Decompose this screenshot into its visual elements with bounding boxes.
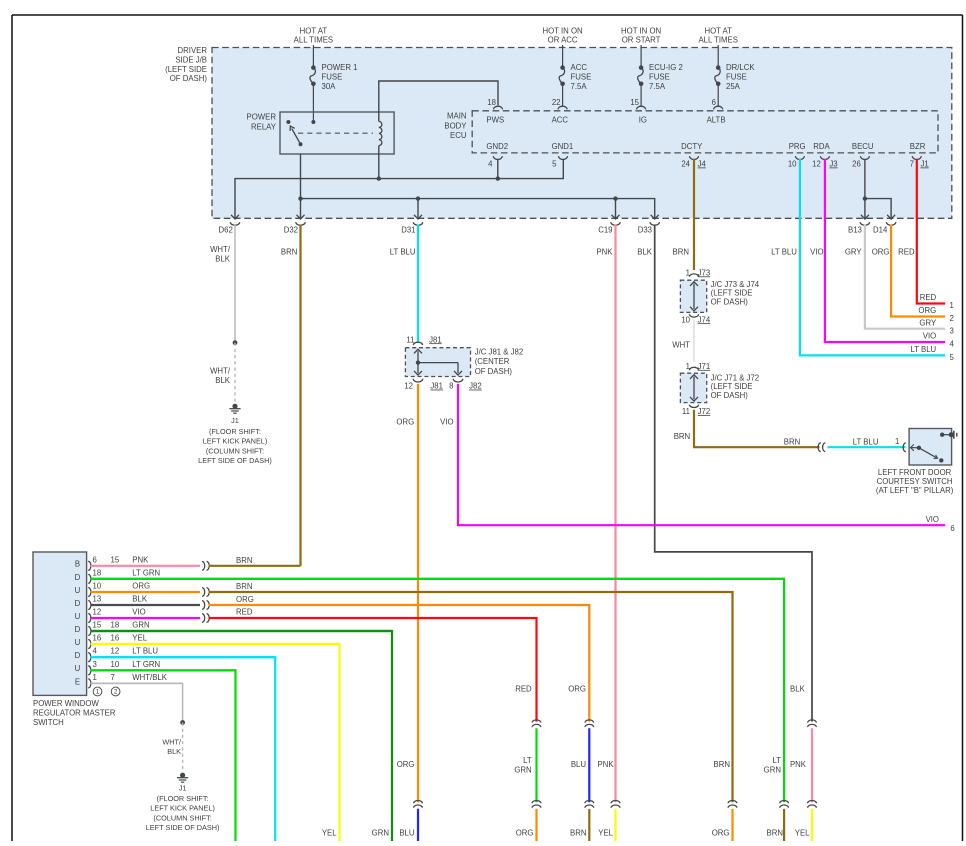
svg-text:LEFT FRONT DOOR: LEFT FRONT DOOR <box>878 468 952 477</box>
svg-text:LT GRN: LT GRN <box>132 568 160 577</box>
svg-text:J4: J4 <box>698 159 707 168</box>
svg-text:POWER: POWER <box>247 113 277 122</box>
wire from HOT IN ON OR START to ECU-IG 2 fuse <box>640 45 642 68</box>
master switch pin 3 wire LT GRN <box>88 660 236 675</box>
splice dot on WHT/BLK wire <box>233 340 238 345</box>
terminal 3 <box>950 326 954 335</box>
courtesy switch pin 1 socket arc <box>903 443 906 452</box>
svg-text:BRN: BRN <box>673 247 689 256</box>
svg-text:J74: J74 <box>698 315 711 324</box>
svg-text:22: 22 <box>552 98 561 107</box>
ECU pin 5 GND1 <box>552 142 574 169</box>
svg-text:J72: J72 <box>698 407 711 416</box>
svg-text:OF DASH): OF DASH) <box>475 367 513 376</box>
svg-text:7.5A: 7.5A <box>571 82 588 91</box>
svg-text:ORG: ORG <box>712 829 730 838</box>
junction connector pin 8 J82 <box>449 379 482 391</box>
connector B13 <box>848 215 870 235</box>
svg-text:BLK: BLK <box>167 747 181 756</box>
wire YEL below PNK connector <box>598 809 615 841</box>
svg-text:30A: 30A <box>322 82 337 91</box>
wire from HOT AT ALL TIMES to DR/LCK fuse <box>717 45 719 68</box>
svg-text:U: U <box>75 638 81 647</box>
svg-text:15: 15 <box>111 555 120 564</box>
circled terminal 2 of master switch <box>111 687 120 696</box>
svg-text:U: U <box>75 586 81 595</box>
inline connector VIO to RED (row 5) <box>202 614 209 623</box>
wire ORG from J81 pin 12 down <box>396 384 418 802</box>
svg-text:2: 2 <box>950 314 954 323</box>
courtesy switch case ground contact <box>940 431 957 439</box>
svg-text:LT BLU: LT BLU <box>390 247 416 256</box>
terminal 1 <box>950 301 954 310</box>
svg-text:D62: D62 <box>218 225 232 234</box>
svg-text:DRIVER: DRIVER <box>178 46 208 55</box>
svg-text:D33: D33 <box>638 225 652 234</box>
wire PNK segment below BLK <box>790 728 812 802</box>
svg-text:16: 16 <box>111 633 120 642</box>
junction block: DRIVER SIDE J/B (dashed box) <box>212 48 952 219</box>
svg-text:6: 6 <box>950 524 954 533</box>
wire BLK from D33 down and right <box>637 225 812 722</box>
svg-text:BRN: BRN <box>236 582 252 591</box>
svg-text:1: 1 <box>950 301 954 310</box>
svg-text:RELAY: RELAY <box>251 122 277 131</box>
svg-text:LT BLU: LT BLU <box>910 345 936 354</box>
svg-text:VIO: VIO <box>132 607 145 616</box>
svg-text:PNK: PNK <box>598 760 615 769</box>
wire relay coil to ECU pin 18 PWS <box>379 81 498 121</box>
svg-text:BODY: BODY <box>444 121 467 130</box>
wire LT BLU to courtesy switch pin 1 <box>828 437 906 447</box>
wire BECU split to D14 <box>865 199 891 219</box>
svg-text:U: U <box>75 612 81 621</box>
ground bus wire (D62/GND2/GND1) <box>235 159 563 218</box>
junction block J/C J81 & J82 (dashed box) <box>405 347 523 376</box>
svg-text:J1: J1 <box>921 159 929 168</box>
svg-text:HOT AT: HOT AT <box>704 26 732 35</box>
courtesy switch arm and contacts <box>911 444 944 462</box>
svg-text:J81: J81 <box>430 382 443 391</box>
svg-text:J71: J71 <box>698 362 711 371</box>
supply label HOT IN ON OR ACC <box>543 26 583 44</box>
svg-text:WHT/: WHT/ <box>210 245 231 254</box>
power feed bus wire (D32/D31/C19/D33) <box>298 196 654 218</box>
svg-text:J73: J73 <box>698 268 711 277</box>
svg-text:SIDE J/B: SIDE J/B <box>175 55 207 64</box>
ECU pin 24 DCTY junction J4 <box>681 142 706 169</box>
svg-text:C19: C19 <box>598 225 612 234</box>
svg-text:18: 18 <box>93 568 102 577</box>
svg-text:DCTY: DCTY <box>681 142 703 151</box>
svg-text:VIO: VIO <box>810 247 823 256</box>
master switch pin 12 wire VIO <box>88 607 200 622</box>
svg-text:LEFT KICK PANEL): LEFT KICK PANEL) <box>150 804 215 813</box>
svg-text:16: 16 <box>93 633 102 642</box>
svg-text:IG: IG <box>639 115 647 124</box>
inline connector LT GRN to BRN (x=784.1) <box>780 801 789 808</box>
terminal 6 <box>950 524 954 533</box>
svg-text:6: 6 <box>712 98 716 107</box>
wire from ECU-IG 2 fuse to ECU pin 15 <box>640 84 642 107</box>
terminal 2 <box>950 314 954 323</box>
svg-text:GND1: GND1 <box>552 142 574 151</box>
svg-text:15: 15 <box>93 620 102 629</box>
svg-text:E: E <box>75 677 80 686</box>
svg-text:LEFT SIDE OF DASH): LEFT SIDE OF DASH) <box>198 456 272 465</box>
svg-text:OF DASH): OF DASH) <box>711 297 749 306</box>
circled terminal 1 of master switch <box>93 687 102 696</box>
wire VIO from J82 pin 8 to terminal 6 <box>440 384 945 525</box>
svg-text:GRN: GRN <box>372 829 389 838</box>
svg-text:18: 18 <box>111 620 120 629</box>
ground J1 (master switch) <box>146 773 220 833</box>
svg-text:(LEFT SIDE: (LEFT SIDE <box>165 65 207 74</box>
svg-text:LT GRN: LT GRN <box>132 660 160 669</box>
wire ORG to bottom (x=732.5) <box>712 809 733 841</box>
svg-text:12: 12 <box>812 159 821 168</box>
wire LT GRN segment (x=536.5) <box>514 728 536 802</box>
svg-text:1: 1 <box>93 673 97 682</box>
svg-text:D: D <box>75 651 81 660</box>
svg-text:BRN: BRN <box>714 760 730 769</box>
junction connector pin 11 J81 <box>406 335 441 345</box>
svg-text:ECU: ECU <box>450 131 467 140</box>
fuse ACC FUSE 7.5A <box>559 63 591 91</box>
svg-text:RED: RED <box>515 684 532 693</box>
svg-text:10: 10 <box>788 159 797 168</box>
relay movable arm with arrow <box>290 126 302 146</box>
svg-text:J81: J81 <box>429 335 442 344</box>
inline connector ORG to BLU (x=589.3) <box>585 720 594 727</box>
master switch pin 1 wire WHT/BLK <box>88 673 182 688</box>
connector D32 <box>284 215 306 235</box>
svg-text:FUSE: FUSE <box>571 72 592 81</box>
svg-text:BRN: BRN <box>236 556 252 565</box>
svg-text:WHT/BLK: WHT/BLK <box>132 673 167 682</box>
relay fixed contact (left) <box>286 120 290 124</box>
svg-text:J/C J73 & J74: J/C J73 & J74 <box>711 280 760 289</box>
wire BRN row 3 down at x=732.5 <box>209 582 733 802</box>
svg-text:PNK: PNK <box>596 247 613 256</box>
relay fixed contact fed by POWER 1 fuse <box>311 120 315 124</box>
svg-text:25A: 25A <box>726 82 741 91</box>
wire BECU pin 26 to B13/D14 split <box>863 159 867 218</box>
wire from DR/LCK fuse to ECU pin 6 <box>717 84 719 107</box>
wire RED row 5 down at x=536.5 <box>209 607 537 721</box>
svg-text:ORG: ORG <box>872 247 890 256</box>
inline connector BLK to ORG (row 4) <box>202 601 209 610</box>
wire BRN from D32 to master switch <box>281 225 301 566</box>
ECU pin 15 IG <box>630 98 647 124</box>
inline connector LT GRN to ORG (x=536.5) <box>532 801 541 808</box>
wire from POWER 1 fuse to relay contact <box>312 84 314 122</box>
svg-text:HOT IN ON: HOT IN ON <box>543 26 583 35</box>
svg-text:2: 2 <box>114 689 118 696</box>
master switch pin 18 wire LT GRN <box>88 568 784 583</box>
svg-text:D: D <box>75 599 81 608</box>
svg-text:VIO: VIO <box>926 515 939 524</box>
svg-text:BECU: BECU <box>852 142 874 151</box>
svg-text:POWER 1: POWER 1 <box>322 63 358 72</box>
svg-text:OR START: OR START <box>622 35 661 44</box>
svg-text:GRN: GRN <box>132 620 149 629</box>
svg-text:(FLOOR SHIFT:: (FLOOR SHIFT: <box>209 427 261 436</box>
svg-text:11: 11 <box>682 407 690 416</box>
master switch pin 4 wire LT BLU <box>88 647 275 662</box>
svg-text:12: 12 <box>111 647 120 656</box>
wire from ACC fuse to ECU pin 22 <box>562 84 564 107</box>
ECU pin 12 RDA junction J3 <box>812 142 838 169</box>
svg-text:BRN: BRN <box>784 438 800 447</box>
switch S1: LEFT FRONT DOOR COURTESY SWITCH (box) <box>909 429 952 466</box>
svg-text:J1: J1 <box>179 783 187 792</box>
label MAIN BODY ECU <box>444 111 467 140</box>
svg-text:LT BLU: LT BLU <box>771 247 797 256</box>
svg-text:J82: J82 <box>469 382 482 391</box>
connector C19 <box>598 215 620 235</box>
svg-text:10: 10 <box>681 315 690 324</box>
svg-text:YEL: YEL <box>322 829 337 838</box>
svg-text:ORG: ORG <box>236 595 254 604</box>
master switch pin 6 wire PNK <box>88 555 200 570</box>
wire from HOT IN ON OR ACC to ACC fuse <box>562 45 564 68</box>
junction dot coil-ground bus <box>377 176 381 180</box>
svg-text:J3: J3 <box>829 159 837 168</box>
svg-text:PNK: PNK <box>790 760 807 769</box>
junction connector pin 1 J71 <box>686 362 711 371</box>
svg-text:FUSE: FUSE <box>322 72 343 81</box>
svg-text:7: 7 <box>111 673 115 682</box>
svg-text:12: 12 <box>93 607 102 616</box>
junction block J/C J73 & J74 (dashed box) <box>680 280 759 313</box>
svg-text:OF DASH): OF DASH) <box>170 74 208 83</box>
relay K1: POWER RELAY (box) <box>247 112 395 154</box>
svg-text:SWITCH: SWITCH <box>33 718 64 727</box>
label DRIVER SIDE J/B <box>165 46 207 83</box>
svg-text:RED: RED <box>920 293 937 302</box>
svg-text:ORG: ORG <box>568 684 586 693</box>
wire PNK from C19 down <box>596 225 615 803</box>
splice dot on WHT/BLK (master switch) <box>180 720 185 725</box>
inline connector BRN to LT BLU <box>818 443 825 452</box>
svg-text:BLK: BLK <box>637 247 653 256</box>
svg-text:LT: LT <box>523 756 532 765</box>
svg-text:15: 15 <box>630 98 639 107</box>
ground J1 (floor shift) <box>198 404 272 466</box>
svg-text:GRN: GRN <box>764 765 781 774</box>
svg-text:10: 10 <box>93 581 102 590</box>
wire BRN row 1 to D32 wire <box>209 556 301 566</box>
wire ORG to bottom (x=536.5) <box>516 809 537 841</box>
ECU pin 26 BECU <box>852 142 874 169</box>
svg-text:COURTESY SWITCH: COURTESY SWITCH <box>877 477 953 486</box>
svg-text:8: 8 <box>449 382 453 391</box>
connector D62 <box>218 215 239 235</box>
svg-text:4: 4 <box>93 647 98 656</box>
master switch pin 15 wire GRN <box>88 620 390 635</box>
svg-text:B13: B13 <box>848 225 862 234</box>
wire ORG from D14 to terminal 2 <box>872 225 945 317</box>
svg-text:OR ACC: OR ACC <box>548 35 578 44</box>
svg-text:B: B <box>75 560 80 569</box>
svg-text:WHT: WHT <box>672 340 690 349</box>
terminal 5 <box>950 353 955 362</box>
wire from HOT AT ALL TIMES to POWER 1 fuse <box>312 45 314 68</box>
svg-text:BRN: BRN <box>570 829 586 838</box>
relay dashed actuation link <box>298 132 373 134</box>
connector D33 <box>638 215 660 235</box>
svg-text:RED: RED <box>236 607 253 616</box>
svg-text:BLU: BLU <box>399 829 415 838</box>
wire BRN from ECU pin 24 DCTY <box>673 159 694 270</box>
svg-text:(LEFT SIDE: (LEFT SIDE <box>711 382 753 391</box>
svg-text:VIO: VIO <box>440 417 453 426</box>
wire VIO from RDA pin 12 to terminal 4 <box>810 159 945 342</box>
svg-text:J/C J81 & J82: J/C J81 & J82 <box>475 347 524 356</box>
svg-text:7.5A: 7.5A <box>649 82 666 91</box>
svg-text:(COLUMN SHIFT:: (COLUMN SHIFT: <box>153 813 211 822</box>
inline connector PNK to BRN (row 1) <box>202 561 209 570</box>
wire ORG row 4 down at x=589.3 <box>209 595 590 722</box>
junction connector pin 11 J72 <box>682 405 710 416</box>
svg-text:D14: D14 <box>873 225 888 234</box>
svg-text:MAIN: MAIN <box>447 111 467 120</box>
ECU pin 4 GND2 <box>486 142 508 169</box>
svg-text:(AT LEFT "B" PILLAR): (AT LEFT "B" PILLAR) <box>876 486 954 495</box>
svg-text:D31: D31 <box>401 225 415 234</box>
svg-text:24: 24 <box>681 159 690 168</box>
svg-text:J/C J71 & J72: J/C J71 & J72 <box>711 373 760 382</box>
svg-text:BLU: BLU <box>571 760 587 769</box>
svg-text:18: 18 <box>487 98 496 107</box>
wire LT BLU from PRG pin 10 to terminal 5 <box>771 159 945 356</box>
inline connector BRN to ORG (x=732.5) <box>728 801 737 808</box>
ECU pin 10 PRG <box>788 142 806 169</box>
inline connector ORG to BLU <box>414 801 423 808</box>
junction connector pin 1 J73 <box>686 268 711 277</box>
svg-text:POWER WINDOW: POWER WINDOW <box>33 699 99 708</box>
wire WHT between J74 and J71 <box>672 320 694 363</box>
wire BRN from J72 to door switch <box>674 410 820 447</box>
supply label HOT IN ON OR START <box>621 26 661 44</box>
ECU U1: MAIN BODY ECU (dashed box) <box>472 111 938 153</box>
wire BRN to bottom (x=784.1) <box>767 809 785 841</box>
svg-text:FUSE: FUSE <box>726 72 747 81</box>
relay coil <box>379 121 382 145</box>
svg-text:U: U <box>75 664 81 673</box>
svg-text:GRY: GRY <box>919 318 937 327</box>
wire GND2 pin 4 to ground bus <box>496 159 500 181</box>
inline connector RED to LT GRN (x=536.5) <box>532 720 541 727</box>
svg-text:PRG: PRG <box>789 142 806 151</box>
svg-text:VIO: VIO <box>923 332 936 341</box>
svg-text:ORG: ORG <box>397 760 415 769</box>
svg-text:ALL TIMES: ALL TIMES <box>294 35 333 44</box>
inline connector BLU to BRN (x=589.3) <box>585 801 594 808</box>
wire LT GRN row 9 to bottom <box>91 670 236 841</box>
svg-text:BLK: BLK <box>215 255 231 264</box>
wire relay coil bottom to ground bus <box>378 146 380 179</box>
junction block J/C J71 & J72 (dashed box) <box>680 373 759 402</box>
relay output wire to D32 <box>300 154 302 218</box>
svg-text:4: 4 <box>950 340 955 349</box>
svg-text:LT: LT <box>772 756 781 765</box>
svg-text:PWS: PWS <box>486 115 504 124</box>
svg-text:LEFT KICK PANEL): LEFT KICK PANEL) <box>203 437 268 446</box>
svg-text:ALTB: ALTB <box>707 115 726 124</box>
master switch pin 16 wire YEL <box>88 633 339 648</box>
fuse POWER 1 FUSE 30A <box>310 63 358 91</box>
svg-text:BRN: BRN <box>281 247 297 256</box>
svg-text:REGULATOR MASTER: REGULATOR MASTER <box>33 709 116 718</box>
svg-text:10: 10 <box>111 660 120 669</box>
dashed WHT/BLK wire to ground J1 <box>210 343 235 404</box>
svg-text:3: 3 <box>93 660 97 669</box>
svg-text:13: 13 <box>93 594 102 603</box>
svg-text:(COLUMN SHIFT:: (COLUMN SHIFT: <box>206 446 264 455</box>
svg-text:(CENTER: (CENTER <box>475 357 510 366</box>
inline connector BLK to PNK <box>808 720 817 727</box>
connector D14 <box>873 215 896 235</box>
wire RED from BZR pin 7 to terminal 1 <box>898 159 945 304</box>
ECU pin 22 ACC <box>552 98 569 124</box>
supply label HOT AT ALL TIMES (right) <box>698 26 737 44</box>
svg-text:LT BLU: LT BLU <box>132 647 158 656</box>
svg-text:6: 6 <box>93 555 97 564</box>
wire LT BLU row 8 to bottom <box>91 657 276 841</box>
master switch pin 13 wire BLK <box>88 594 200 609</box>
wire WHT/BLK from D62 <box>210 225 235 343</box>
junction connector pin 10 J74 <box>681 314 711 324</box>
svg-text:12: 12 <box>404 382 413 391</box>
fuse ECU-IG 2 FUSE 7.5A <box>638 63 683 91</box>
wire GRY from B13 to terminal 3 <box>845 225 945 329</box>
svg-text:YEL: YEL <box>132 633 147 642</box>
svg-text:GND2: GND2 <box>486 142 508 151</box>
svg-text:D: D <box>75 625 81 634</box>
svg-text:4: 4 <box>488 159 493 168</box>
svg-text:YEL: YEL <box>598 829 613 838</box>
svg-text:FUSE: FUSE <box>649 72 670 81</box>
label LEFT FRONT DOOR COURTESY SWITCH <box>876 468 954 495</box>
svg-text:ORG: ORG <box>516 829 534 838</box>
svg-text:OF DASH): OF DASH) <box>711 391 749 400</box>
wire LT GRN row 2 down at x=784.1 <box>91 579 785 802</box>
svg-text:YEL: YEL <box>795 829 810 838</box>
svg-text:1: 1 <box>895 437 899 446</box>
supply label HOT AT ALL TIMES (left) <box>294 26 333 44</box>
ECU pin 7 BZR junction J1 <box>910 142 929 169</box>
svg-text:1: 1 <box>96 689 100 696</box>
terminal 4 <box>950 340 955 349</box>
svg-text:WHT/: WHT/ <box>162 737 182 746</box>
switch S2: POWER WINDOW REGULATOR MASTER SWITCH (box) <box>33 552 87 695</box>
wire WHT/BLK row 10 to splice <box>91 683 183 722</box>
svg-text:DR/LCK: DR/LCK <box>726 63 755 72</box>
svg-text:BRN: BRN <box>674 432 690 441</box>
dashed WHT/BLK to ground J1 (master switch) <box>162 723 182 773</box>
master switch pin 10 wire ORG <box>88 581 200 596</box>
wire BLU segment (x=589.3) <box>571 728 589 802</box>
svg-text:HOT AT: HOT AT <box>300 26 328 35</box>
svg-text:ACC: ACC <box>571 63 588 72</box>
svg-text:BLK: BLK <box>215 376 231 385</box>
wire YEL row 7 to bottom <box>91 644 340 841</box>
svg-text:RED: RED <box>898 247 915 256</box>
ECU pin 6 ALTB <box>707 98 726 124</box>
inline connector ORG to BRN (row 3) <box>202 588 209 597</box>
